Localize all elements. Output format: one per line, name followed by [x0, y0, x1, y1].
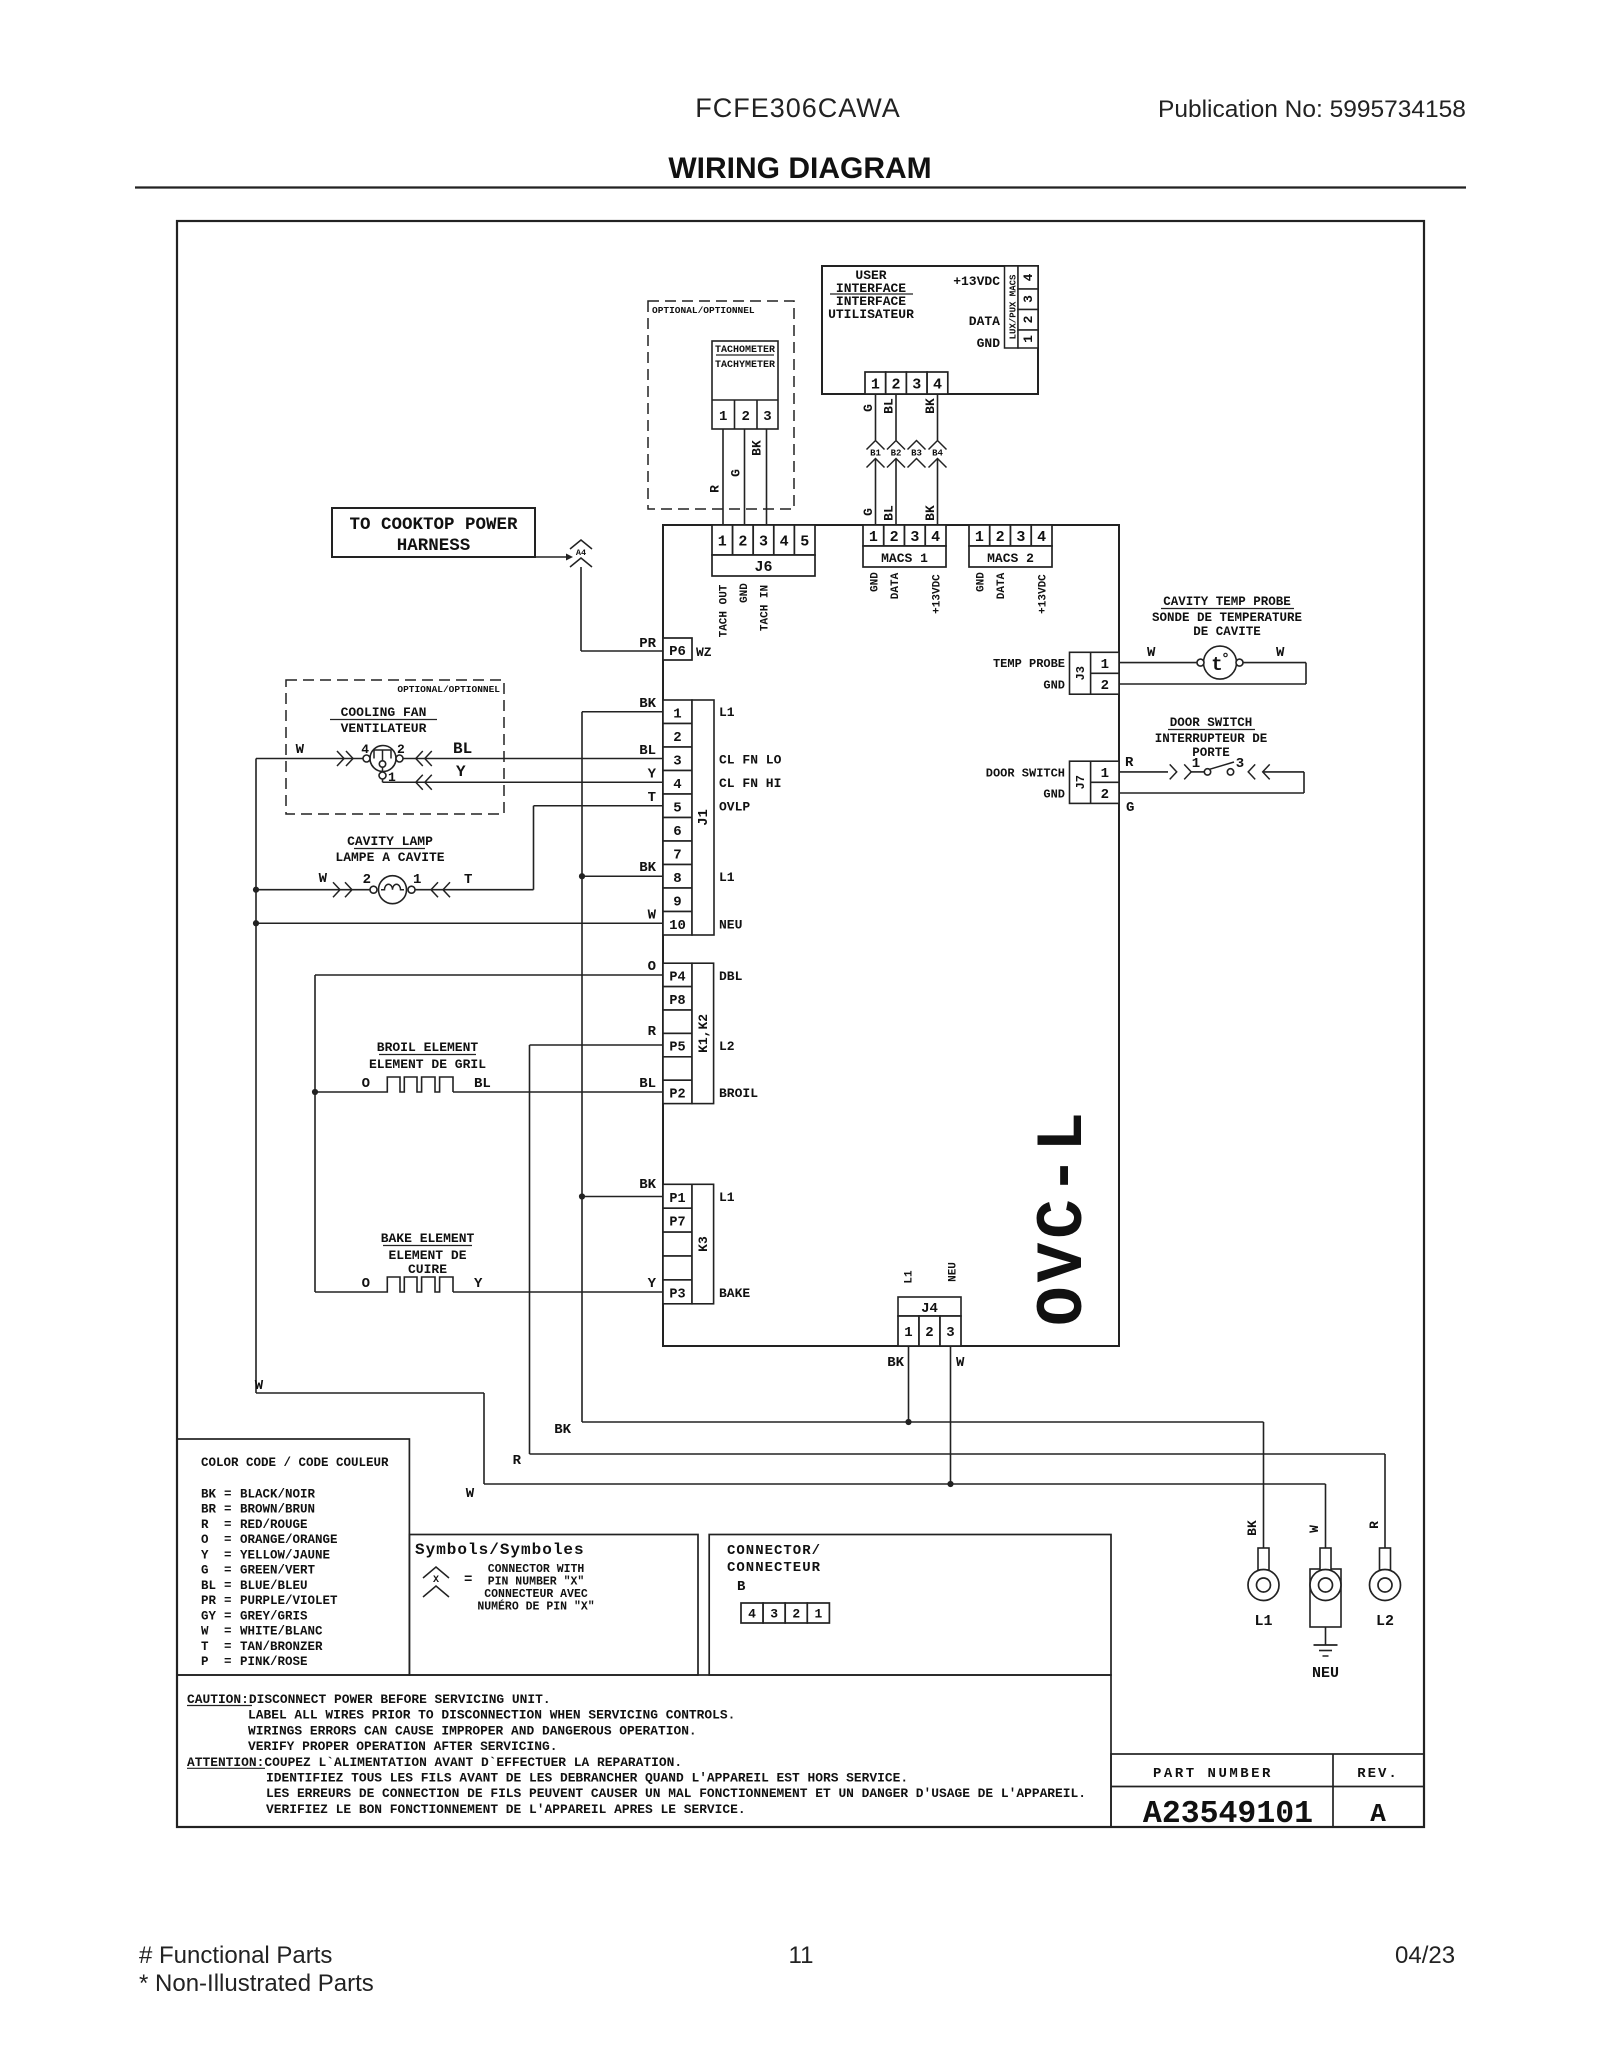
svg-text:2: 2: [892, 376, 901, 393]
svg-text:Publication No: 5995734158: Publication No: 5995734158: [1158, 96, 1466, 123]
svg-text:P1: P1: [669, 1192, 685, 1207]
svg-text:J3: J3: [1074, 666, 1088, 680]
svg-text:3: 3: [912, 376, 921, 393]
svg-text:A: A: [1370, 1799, 1386, 1829]
svg-text:CONNECTEUR AVEC: CONNECTEUR AVEC: [484, 1588, 588, 1601]
svg-text:4: 4: [1037, 529, 1046, 546]
svg-text:3: 3: [946, 1325, 954, 1341]
svg-text:1: 1: [718, 533, 727, 550]
svg-text:BL: BL: [882, 398, 897, 414]
svg-text:YELLOW/JAUNE: YELLOW/JAUNE: [240, 1548, 330, 1562]
svg-text:GND: GND: [739, 583, 751, 603]
svg-text:R: R: [648, 1024, 657, 1040]
svg-text:DBL: DBL: [719, 969, 743, 984]
connector MACS 1 label box: [863, 546, 946, 567]
svg-text:R: R: [1367, 1521, 1382, 1529]
svg-text:O: O: [201, 1533, 209, 1547]
svg-text:=: =: [224, 1640, 232, 1654]
tachometer TACH1 box: [712, 341, 778, 429]
svg-text:X: X: [433, 1575, 439, 1586]
svg-text:O: O: [648, 959, 656, 975]
svg-text:=: =: [464, 1572, 472, 1588]
svg-text:W: W: [255, 1378, 264, 1394]
wire bus W (left riser): [255, 759, 257, 1394]
svg-text:1: 1: [869, 529, 878, 546]
svg-text:TACH OUT: TACH OUT: [718, 584, 730, 637]
svg-text:P3: P3: [669, 1287, 685, 1302]
svg-text:BLACK/NOIR: BLACK/NOIR: [240, 1488, 316, 1502]
wire W: J3 pin1 to temp probe: [1119, 662, 1197, 664]
svg-text:LUX/PUX MACS: LUX/PUX MACS: [1009, 274, 1019, 339]
wire O: P4 to broil/bake feed: [315, 974, 663, 976]
svg-text:R: R: [513, 1453, 522, 1469]
svg-text:3: 3: [1236, 756, 1244, 772]
svg-text:1: 1: [814, 1607, 822, 1622]
connector A4 symbol: [570, 540, 592, 549]
svg-text:W: W: [201, 1625, 209, 1639]
svg-text:# Functional Parts: # Functional Parts: [139, 1942, 332, 1969]
svg-text:BAKE ELEMENT: BAKE ELEMENT: [381, 1231, 475, 1246]
color code legend box: [177, 1439, 409, 1675]
svg-text:1: 1: [673, 706, 681, 722]
svg-text:4: 4: [673, 777, 681, 793]
wire Y: fan pin1 down and right: [382, 779, 384, 782]
connector J4 label box: [898, 1297, 961, 1316]
svg-text:BROIL ELEMENT: BROIL ELEMENT: [377, 1040, 479, 1055]
svg-text:Y: Y: [456, 763, 466, 781]
svg-text:GND: GND: [869, 572, 881, 592]
svg-text:=: =: [224, 1548, 232, 1562]
svg-text:R: R: [201, 1518, 209, 1532]
svg-text:COLOR CODE / CODE COULEUR: COLOR CODE / CODE COULEUR: [201, 1456, 389, 1470]
svg-text:B: B: [737, 1579, 746, 1595]
svg-text:6: 6: [673, 824, 681, 840]
svg-text:OVC-L: OVC-L: [1026, 1108, 1101, 1326]
wire G: UI pin1 to splice B1: [875, 394, 877, 440]
splice connector B4: [929, 441, 947, 450]
svg-text:BK: BK: [639, 1177, 656, 1193]
relay K1,K2 pin column P4 P8 P5 P2: [663, 963, 692, 986]
svg-text:NUMÉRO DE PIN "X": NUMÉRO DE PIN "X": [477, 1600, 594, 1614]
svg-text:4: 4: [1021, 273, 1036, 281]
svg-text:1: 1: [904, 1325, 912, 1341]
svg-text:ELEMENT DE GRIL: ELEMENT DE GRIL: [369, 1057, 486, 1072]
part number title block: [1111, 1754, 1424, 1827]
wire PR: connector A4 down and right to P6: [580, 567, 582, 651]
svg-text:T: T: [201, 1640, 209, 1654]
wire BK: UI pin4 to splice B4: [937, 394, 939, 440]
svg-text:COOLING FAN: COOLING FAN: [341, 705, 427, 720]
connector J3 box: [1070, 652, 1120, 694]
svg-text:ELEMENT DE: ELEMENT DE: [388, 1248, 466, 1263]
connector J7 box: [1070, 761, 1120, 803]
svg-text:W: W: [1307, 1525, 1322, 1533]
svg-text:3: 3: [910, 529, 919, 546]
svg-text:=: =: [224, 1518, 232, 1532]
connector B legend box: [709, 1535, 1111, 1676]
svg-text:BL: BL: [639, 743, 656, 759]
svg-text:BK: BK: [1245, 1520, 1260, 1536]
svg-text:GND: GND: [977, 336, 1001, 351]
svg-text:UTILISATEUR: UTILISATEUR: [828, 307, 914, 322]
broil element resistor symbol: [315, 1077, 453, 1092]
bake element resistor symbol: [315, 1277, 453, 1292]
svg-text:OPTIONAL/OPTIONNEL: OPTIONAL/OPTIONNEL: [652, 305, 755, 316]
svg-text:L2: L2: [1376, 1613, 1394, 1630]
svg-text:2: 2: [925, 1325, 933, 1341]
wire Y: bake element to P3: [453, 1291, 663, 1293]
svg-text:WZ: WZ: [696, 645, 712, 660]
connector J4 pin row 1 2 3: [898, 1316, 919, 1346]
svg-text:TACHYMETER: TACHYMETER: [715, 360, 775, 371]
svg-text:2: 2: [397, 742, 405, 757]
svg-text:K3: K3: [696, 1236, 711, 1252]
connector J1 pin column 1-10: [663, 700, 692, 724]
terminal NEU lug and sleeve: [1310, 1569, 1341, 1627]
main control board OVC-L outline: [663, 525, 1119, 1346]
svg-text:RED/ROUGE: RED/ROUGE: [240, 1518, 308, 1532]
wire BK: P1 to BK bus, junction: [582, 1196, 663, 1198]
connector MACS 1 pin row: [863, 525, 884, 546]
svg-text:BROWN/BRUN: BROWN/BRUN: [240, 1503, 315, 1517]
svg-text:J7: J7: [1074, 775, 1088, 789]
svg-text:CL FN LO: CL FN LO: [719, 753, 782, 768]
svg-text:Y: Y: [474, 1276, 483, 1292]
svg-text:L1: L1: [1254, 1613, 1272, 1630]
svg-text:IDENTIFIEZ TOUS LES FILS AVANT: IDENTIFIEZ TOUS LES FILS AVANT DE LES DE…: [266, 1771, 908, 1786]
svg-text:J6: J6: [754, 559, 772, 576]
svg-text:3: 3: [1016, 529, 1025, 546]
caution text block box: [177, 1675, 1111, 1827]
svg-text:L1: L1: [719, 870, 735, 885]
svg-text:WIRINGS ERRORS CAN CAUSE IMPRO: WIRINGS ERRORS CAN CAUSE IMPROPER AND DA…: [248, 1723, 697, 1738]
relay K1,K2 label box: [692, 963, 714, 1103]
svg-text:O: O: [362, 1276, 370, 1292]
svg-text:1: 1: [388, 770, 396, 785]
svg-text:G: G: [729, 469, 744, 477]
svg-text:P2: P2: [669, 1087, 685, 1102]
outer diagram border: [177, 221, 1424, 1827]
splice connector B1: [867, 441, 885, 450]
wire W: J4 pin3 to W bus, junction: [950, 1346, 952, 1484]
svg-text:BLUE/BLEU: BLUE/BLEU: [240, 1579, 308, 1593]
svg-text:TACH IN: TACH IN: [760, 585, 772, 631]
svg-text:BL: BL: [639, 1076, 656, 1092]
svg-text:11: 11: [789, 1942, 814, 1969]
svg-text:MACS 1: MACS 1: [881, 551, 928, 566]
svg-text:FCFE306CAWA: FCFE306CAWA: [695, 93, 901, 123]
svg-text:ATTENTION:COUPEZ L`ALIMENTATIO: ATTENTION:COUPEZ L`ALIMENTATION AVANT D`…: [187, 1755, 682, 1770]
svg-text:=: =: [224, 1655, 232, 1669]
svg-text:A23549101: A23549101: [1143, 1797, 1313, 1832]
svg-text:4: 4: [748, 1607, 756, 1622]
svg-text:ORANGE/ORANGE: ORANGE/ORANGE: [240, 1533, 338, 1547]
svg-text:1: 1: [1101, 766, 1109, 782]
svg-text:1: 1: [1021, 335, 1036, 343]
svg-text:CAVITY LAMP: CAVITY LAMP: [347, 834, 433, 849]
wire R: J7 pin1 to door switch (chevrons): [1119, 771, 1168, 773]
svg-text:WIRING DIAGRAM: WIRING DIAGRAM: [668, 152, 931, 185]
svg-text:B1: B1: [870, 449, 881, 459]
svg-text:=: =: [224, 1579, 232, 1593]
svg-text:T: T: [464, 872, 472, 888]
svg-text:G: G: [861, 508, 876, 516]
cavity lamp symbol: [379, 876, 407, 904]
svg-text:4: 4: [931, 529, 940, 546]
cooling fan motor symbol: [370, 746, 396, 772]
svg-text:TAN/BRONZER: TAN/BRONZER: [240, 1640, 323, 1654]
svg-text:1: 1: [413, 872, 421, 888]
svg-text:K1,K2: K1,K2: [696, 1014, 711, 1053]
svg-text:CL FN HI: CL FN HI: [719, 776, 781, 791]
svg-text:L1: L1: [719, 1190, 735, 1205]
svg-text:CAVITY TEMP PROBE: CAVITY TEMP PROBE: [1163, 595, 1291, 609]
wire W to J1 pin10, junction on W bus: [256, 922, 663, 924]
svg-text:PR: PR: [201, 1594, 217, 1608]
svg-text:PART NUMBER: PART NUMBER: [1153, 1766, 1273, 1782]
wire bus BK from J1 pin1 to L1: [581, 712, 583, 1422]
svg-text:3: 3: [763, 409, 771, 425]
wire BK: splice B4 to MACS1 pin4: [937, 459, 939, 526]
svg-text:2: 2: [738, 533, 747, 550]
svg-text:OVLP: OVLP: [719, 800, 750, 815]
svg-text:CUIRE: CUIRE: [408, 1262, 447, 1277]
svg-text:04/23: 04/23: [1395, 1942, 1455, 1969]
svg-text:BL: BL: [201, 1579, 216, 1593]
svg-text:B3: B3: [911, 449, 922, 459]
svg-text:INTERRUPTEUR DE: INTERRUPTEUR DE: [1155, 732, 1268, 746]
relay K3 pin column P1 P7 P3: [663, 1184, 692, 1208]
svg-text:9: 9: [673, 894, 681, 910]
svg-text:=: =: [224, 1488, 232, 1502]
svg-text:=: =: [224, 1625, 232, 1639]
wire T: lamp pin1 to J1 pin5 riser (chevrons): [415, 889, 534, 891]
svg-text:BK: BK: [750, 440, 765, 456]
svg-text:+13VDC: +13VDC: [932, 574, 944, 614]
svg-text:PIN NUMBER "X": PIN NUMBER "X": [488, 1576, 585, 1589]
svg-text:SONDE DE TEMPERATURE: SONDE DE TEMPERATURE: [1152, 611, 1302, 625]
svg-text:DATA: DATA: [969, 314, 1000, 329]
svg-text:2: 2: [1021, 315, 1036, 323]
svg-text:B2: B2: [891, 449, 902, 459]
svg-text:2: 2: [1101, 678, 1109, 694]
terminal L2 ring lug: [1380, 1548, 1391, 1570]
svg-text:=: =: [224, 1594, 232, 1608]
svg-text:10: 10: [669, 918, 686, 934]
wire T lamp to J1 pin5: [534, 805, 664, 807]
temp probe RT1 symbol: [1204, 646, 1237, 679]
svg-text:W: W: [319, 871, 328, 887]
svg-text:2: 2: [363, 872, 371, 888]
connector J6 pin row: [712, 525, 733, 555]
svg-text:2: 2: [996, 529, 1005, 546]
svg-text:NEU: NEU: [1312, 1665, 1339, 1682]
svg-text:W: W: [296, 742, 305, 758]
splice connector B3 (unused): [908, 441, 926, 450]
wire BL: fan pin2 to J1 pin3 (chevrons): [416, 751, 423, 766]
svg-text:G: G: [201, 1564, 209, 1578]
svg-text:J1: J1: [696, 809, 712, 826]
wire BK to J1 pin1: [582, 711, 663, 713]
title rule: [135, 186, 1466, 188]
svg-text:P6: P6: [669, 644, 686, 660]
svg-text:4: 4: [361, 742, 369, 757]
svg-text:LAMPE A CAVITE: LAMPE A CAVITE: [335, 850, 444, 865]
svg-text:BL: BL: [882, 505, 897, 521]
svg-text:DOOR SWITCH: DOOR SWITCH: [986, 767, 1065, 781]
wire Y fan to J1 pin4: [383, 781, 664, 783]
wire harness box to connector A4 with arrowhead: [535, 556, 566, 558]
svg-text:8: 8: [673, 871, 681, 887]
svg-text:P7: P7: [669, 1216, 685, 1231]
optional tachometer dashed enclosure: [648, 301, 794, 509]
wire BK: J4 pin1 to BK bus, junction: [908, 1346, 910, 1422]
svg-text:4: 4: [933, 376, 942, 393]
svg-text:P8: P8: [669, 994, 685, 1009]
svg-text:+13VDC: +13VDC: [953, 274, 1000, 289]
wire bus R from P5 to L2: [529, 1045, 531, 1454]
svg-text:DE CAVITE: DE CAVITE: [1193, 625, 1261, 639]
svg-text:BK: BK: [923, 398, 938, 414]
splice connector B2: [887, 441, 905, 450]
svg-text:BR: BR: [201, 1503, 217, 1517]
svg-text:1: 1: [975, 529, 984, 546]
svg-text:L1: L1: [719, 705, 735, 720]
node TO COOKTOP POWER HARNESS box: [332, 508, 535, 557]
svg-text:GND: GND: [975, 572, 987, 592]
wire W: temp probe return loop to J3 pin2: [1243, 662, 1306, 664]
wire BK tach pin3 to J6 pin3: [766, 429, 768, 525]
svg-text:3: 3: [673, 753, 681, 769]
svg-text:BL: BL: [474, 1076, 491, 1092]
connector MACS 2 pin row: [969, 525, 990, 546]
svg-text:7: 7: [673, 847, 681, 863]
legend connector-with-pin symbol: [423, 1567, 449, 1578]
svg-text:GY: GY: [201, 1609, 217, 1623]
UI bottom pin row 1 2 3 4: [865, 372, 886, 394]
terminal L1 ring lug: [1258, 1548, 1269, 1570]
wire BL fan to J1 pin3: [403, 758, 663, 760]
svg-text:CAUTION:DISCONNECT POWER BEFOR: CAUTION:DISCONNECT POWER BEFORE SERVICIN…: [187, 1692, 551, 1707]
svg-text:BK: BK: [201, 1488, 217, 1502]
svg-text:Y: Y: [648, 767, 657, 783]
svg-text:5: 5: [673, 800, 681, 816]
wire R tach pin1 to J6 pin1: [722, 429, 724, 525]
svg-text:BL: BL: [453, 740, 472, 758]
wire G: splice B1 to MACS1 pin1: [875, 459, 877, 526]
svg-text:2: 2: [673, 730, 681, 746]
svg-text:NEU: NEU: [948, 1262, 960, 1282]
svg-text:BK: BK: [639, 696, 656, 712]
svg-text:NEU: NEU: [719, 918, 742, 933]
UI LUX/PUX MACS connector column: [1005, 266, 1019, 348]
svg-text:W: W: [466, 1486, 475, 1502]
wire W: W bus junction to lamp pin2: [256, 889, 370, 891]
svg-text:=: =: [224, 1503, 232, 1517]
svg-text:LABEL ALL WIRES PRIOR TO DISCO: LABEL ALL WIRES PRIOR TO DISCONNECTION W…: [248, 1708, 735, 1723]
svg-text:OPTIONAL/OPTIONNEL: OPTIONAL/OPTIONNEL: [397, 684, 500, 695]
wire bus W lower run to NEU: [256, 1392, 484, 1394]
svg-text:BAKE: BAKE: [719, 1286, 750, 1301]
svg-text:4: 4: [780, 533, 789, 550]
svg-text:5: 5: [800, 533, 809, 550]
svg-text:L2: L2: [719, 1039, 735, 1054]
svg-text:1: 1: [1192, 756, 1200, 772]
svg-text:1: 1: [1101, 657, 1109, 673]
svg-text:PINK/ROSE: PINK/ROSE: [240, 1655, 308, 1669]
svg-text:WHITE/BLANC: WHITE/BLANC: [240, 1625, 323, 1639]
wire BL: splice B2 to MACS1 pin2: [895, 459, 897, 526]
svg-text:GND: GND: [1043, 679, 1065, 693]
svg-text:BROIL: BROIL: [719, 1086, 758, 1101]
svg-text:* Non-Illustrated Parts: * Non-Illustrated Parts: [139, 1970, 374, 1997]
connector B pin row 4 3 2 1: [741, 1603, 763, 1623]
wire BK to J1 pin8, junction on BK bus: [582, 875, 663, 877]
svg-text:TACHOMETER: TACHOMETER: [715, 345, 775, 356]
svg-text:R: R: [708, 485, 723, 493]
optional cooling fan dashed enclosure: [286, 680, 504, 814]
svg-text:G: G: [861, 404, 876, 412]
svg-text:GND: GND: [1043, 788, 1065, 802]
svg-text:t: t: [1211, 654, 1222, 676]
svg-text:P: P: [201, 1655, 209, 1669]
connector J6 label box: [712, 555, 815, 576]
wire O: vertical feed from P4 to elements, junction at broil: [314, 975, 316, 1292]
ground symbol at NEU: [1325, 1627, 1327, 1645]
svg-text:Symbols/Symboles: Symbols/Symboles: [415, 1541, 585, 1559]
svg-text:+13VDC: +13VDC: [1038, 574, 1050, 614]
svg-text:G: G: [1126, 800, 1134, 816]
svg-text:B4: B4: [932, 449, 943, 459]
svg-text:=: =: [224, 1533, 232, 1547]
svg-text:A4: A4: [576, 548, 586, 558]
svg-text:BK: BK: [554, 1422, 571, 1438]
svg-text:O: O: [362, 1076, 370, 1092]
svg-text:W: W: [1147, 645, 1156, 661]
wire W: W bus to fan pin4: [256, 758, 363, 760]
svg-text:3: 3: [1021, 295, 1036, 303]
symbols legend box: [409, 1535, 698, 1676]
svg-text:DATA: DATA: [996, 572, 1008, 599]
wire BL: broil element to P2: [453, 1091, 663, 1093]
connector J1 label box: [692, 700, 714, 935]
svg-text:DOOR SWITCH: DOOR SWITCH: [1170, 716, 1253, 730]
svg-text:W: W: [956, 1355, 965, 1371]
svg-text:PR: PR: [639, 636, 656, 652]
svg-text:GREEN/VERT: GREEN/VERT: [240, 1564, 316, 1578]
connector P6 on board edge: [663, 638, 692, 660]
svg-text:R: R: [1125, 755, 1134, 771]
wire return: door switch to J7 pin2 (chevrons): [1248, 764, 1255, 779]
wire R: P5 to R bus: [530, 1044, 664, 1046]
svg-text:BK: BK: [887, 1355, 904, 1371]
svg-text:LES ERREURS DE CONNECTION DE F: LES ERREURS DE CONNECTION DE FILS PEUVEN…: [266, 1786, 1086, 1801]
connector MACS 2 label box: [969, 546, 1052, 567]
svg-text:J4: J4: [921, 1301, 938, 1317]
wire G tach pin2 to J6 pin2: [744, 429, 746, 525]
svg-text:1: 1: [719, 409, 727, 425]
tachometer pin row 1 2 3: [712, 399, 778, 401]
svg-text:BK: BK: [923, 505, 938, 521]
wire BL: UI pin2 to splice B2: [895, 394, 897, 440]
svg-text:CONNECTEUR: CONNECTEUR: [727, 1560, 821, 1576]
svg-text:MACS 2: MACS 2: [987, 551, 1034, 566]
svg-text:1: 1: [871, 376, 880, 393]
svg-text:Y: Y: [648, 1276, 657, 1292]
svg-text:VERIFY PROPER OPERATION AFTER: VERIFY PROPER OPERATION AFTER SERVICING.: [248, 1739, 557, 1754]
svg-text:=: =: [224, 1564, 232, 1578]
svg-text:2: 2: [741, 409, 749, 425]
